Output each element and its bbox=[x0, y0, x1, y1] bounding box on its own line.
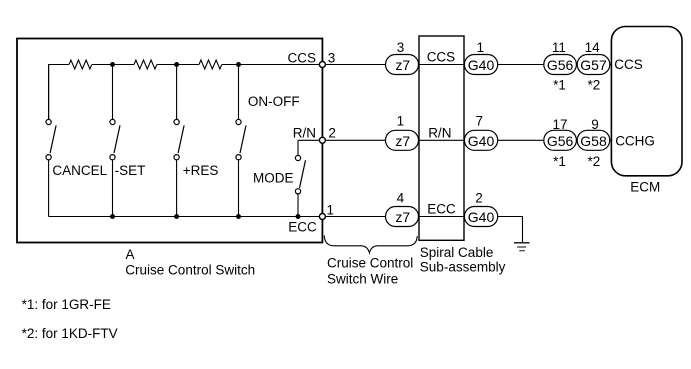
svg-text:4: 4 bbox=[397, 190, 405, 205]
svg-text:2: 2 bbox=[475, 190, 483, 205]
svg-text:R/N: R/N bbox=[293, 126, 316, 141]
svg-text:G40: G40 bbox=[468, 209, 495, 225]
svg-text:G40: G40 bbox=[468, 57, 495, 73]
svg-text:MODE: MODE bbox=[253, 170, 294, 185]
svg-text:2: 2 bbox=[328, 125, 336, 140]
svg-text:1: 1 bbox=[397, 113, 405, 128]
svg-text:CCS: CCS bbox=[287, 51, 316, 66]
svg-text:A: A bbox=[126, 247, 135, 262]
svg-text:*1: for 1GR-FE: *1: for 1GR-FE bbox=[22, 297, 111, 312]
svg-text:9: 9 bbox=[591, 117, 599, 132]
svg-text:7: 7 bbox=[475, 113, 483, 128]
svg-text:ON-OFF: ON-OFF bbox=[248, 94, 300, 109]
svg-text:+RES: +RES bbox=[183, 163, 219, 178]
svg-text:CCHG: CCHG bbox=[615, 134, 655, 149]
svg-text:*2: for 1KD-FTV: *2: for 1KD-FTV bbox=[22, 326, 118, 341]
svg-text:G56: G56 bbox=[547, 57, 574, 73]
svg-text:17: 17 bbox=[552, 117, 567, 132]
svg-text:*2: *2 bbox=[588, 78, 601, 93]
svg-text:14: 14 bbox=[585, 40, 601, 55]
svg-text:*1: *1 bbox=[553, 78, 566, 93]
svg-text:G57: G57 bbox=[580, 57, 607, 73]
svg-text:Switch Wire: Switch Wire bbox=[327, 272, 398, 287]
svg-text:CCS: CCS bbox=[614, 57, 643, 72]
svg-text:1: 1 bbox=[477, 40, 485, 55]
svg-text:-SET: -SET bbox=[115, 163, 146, 178]
svg-text:3: 3 bbox=[397, 40, 405, 55]
svg-text:ECC: ECC bbox=[288, 220, 317, 235]
svg-text:*2: *2 bbox=[588, 154, 601, 169]
svg-text:CCS: CCS bbox=[427, 50, 456, 65]
svg-text:Cruise Control Switch: Cruise Control Switch bbox=[125, 262, 255, 277]
svg-text:ECM: ECM bbox=[630, 180, 660, 195]
svg-text:Spiral Cable: Spiral Cable bbox=[420, 245, 494, 260]
svg-text:11: 11 bbox=[552, 40, 566, 55]
svg-text:*1: *1 bbox=[553, 154, 566, 169]
svg-text:3: 3 bbox=[328, 50, 336, 65]
svg-text:z7: z7 bbox=[395, 209, 410, 225]
svg-text:G40: G40 bbox=[468, 133, 495, 149]
svg-text:z7: z7 bbox=[395, 57, 410, 73]
svg-text:R/N: R/N bbox=[428, 126, 451, 141]
svg-text:CANCEL: CANCEL bbox=[52, 163, 107, 178]
svg-text:G56: G56 bbox=[547, 133, 574, 149]
svg-text:ECC: ECC bbox=[427, 202, 456, 217]
svg-text:Sub-assembly: Sub-assembly bbox=[420, 260, 506, 275]
svg-text:1: 1 bbox=[327, 202, 335, 217]
svg-text:Cruise Control: Cruise Control bbox=[327, 256, 413, 271]
svg-text:z7: z7 bbox=[395, 133, 410, 149]
svg-text:G58: G58 bbox=[580, 133, 607, 149]
